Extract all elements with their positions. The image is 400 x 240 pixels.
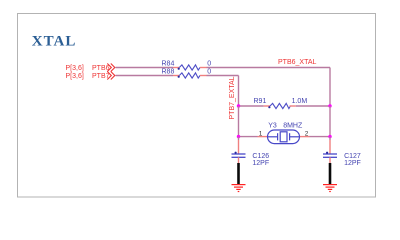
- svg-text:C127: C127: [344, 153, 361, 160]
- connector chevron row2: [107, 72, 115, 80]
- svg-text:0: 0: [207, 61, 211, 68]
- svg-text:R84: R84: [162, 61, 175, 68]
- resistor R84: [173, 65, 207, 70]
- wire crystal row left: [239, 136, 258, 138]
- connector chevron row1: [107, 64, 115, 72]
- wire C127 to ground (thick black): [329, 163, 332, 184]
- svg-text:PTB7_EXTAL: PTB7_EXTAL: [229, 76, 236, 119]
- svg-text:12PF: 12PF: [252, 160, 269, 167]
- wire PTB6 right segment: [207, 67, 331, 69]
- wire PTB7 right segment: [207, 75, 239, 77]
- wire left vertical top: [238, 76, 240, 107]
- capacitor C127: [323, 152, 337, 163]
- wire left vertical to C126: [238, 137, 240, 140]
- ground right: [323, 185, 337, 192]
- svg-text:C126: C126: [252, 153, 269, 160]
- svg-text:0: 0: [207, 69, 211, 76]
- wire PTB7 left segment: [116, 75, 174, 77]
- ground left: [232, 185, 246, 192]
- resistor R91: [264, 103, 296, 108]
- svg-text:8MHZ: 8MHZ: [283, 122, 303, 129]
- svg-text:12PF: 12PF: [344, 160, 361, 167]
- junction left crystal: [237, 135, 240, 138]
- wire right vertical mid: [329, 106, 331, 137]
- wire R91 row left: [239, 105, 264, 107]
- wire crystal row right: [310, 136, 331, 138]
- junction left R91: [237, 104, 240, 107]
- svg-text:Y3: Y3: [268, 122, 277, 129]
- capacitor C126: [232, 152, 246, 163]
- wire left vertical mid: [238, 106, 240, 137]
- svg-text:PTB6_XTAL: PTB6_XTAL: [278, 59, 316, 66]
- wire right vertical top: [329, 68, 331, 107]
- wire right vertical to C127: [329, 137, 331, 140]
- wire C126 to ground (thick black): [237, 163, 240, 184]
- svg-text:1.0M: 1.0M: [292, 98, 308, 105]
- wire PTB6 left segment: [116, 67, 174, 69]
- junction right crystal: [328, 135, 331, 138]
- svg-text:R91: R91: [254, 98, 267, 105]
- svg-text:XTAL: XTAL: [32, 34, 77, 50]
- junction right R91: [328, 104, 331, 107]
- wire R91 row right: [296, 105, 330, 107]
- svg-text:R88: R88: [162, 69, 175, 76]
- resistor R88: [173, 73, 207, 78]
- svg-text:P[3,6]: P[3,6]: [66, 73, 84, 80]
- border frame (decorative): [18, 14, 376, 198]
- svg-text:P[3,6]: P[3,6]: [66, 65, 84, 72]
- crystal Y3: [258, 130, 310, 144]
